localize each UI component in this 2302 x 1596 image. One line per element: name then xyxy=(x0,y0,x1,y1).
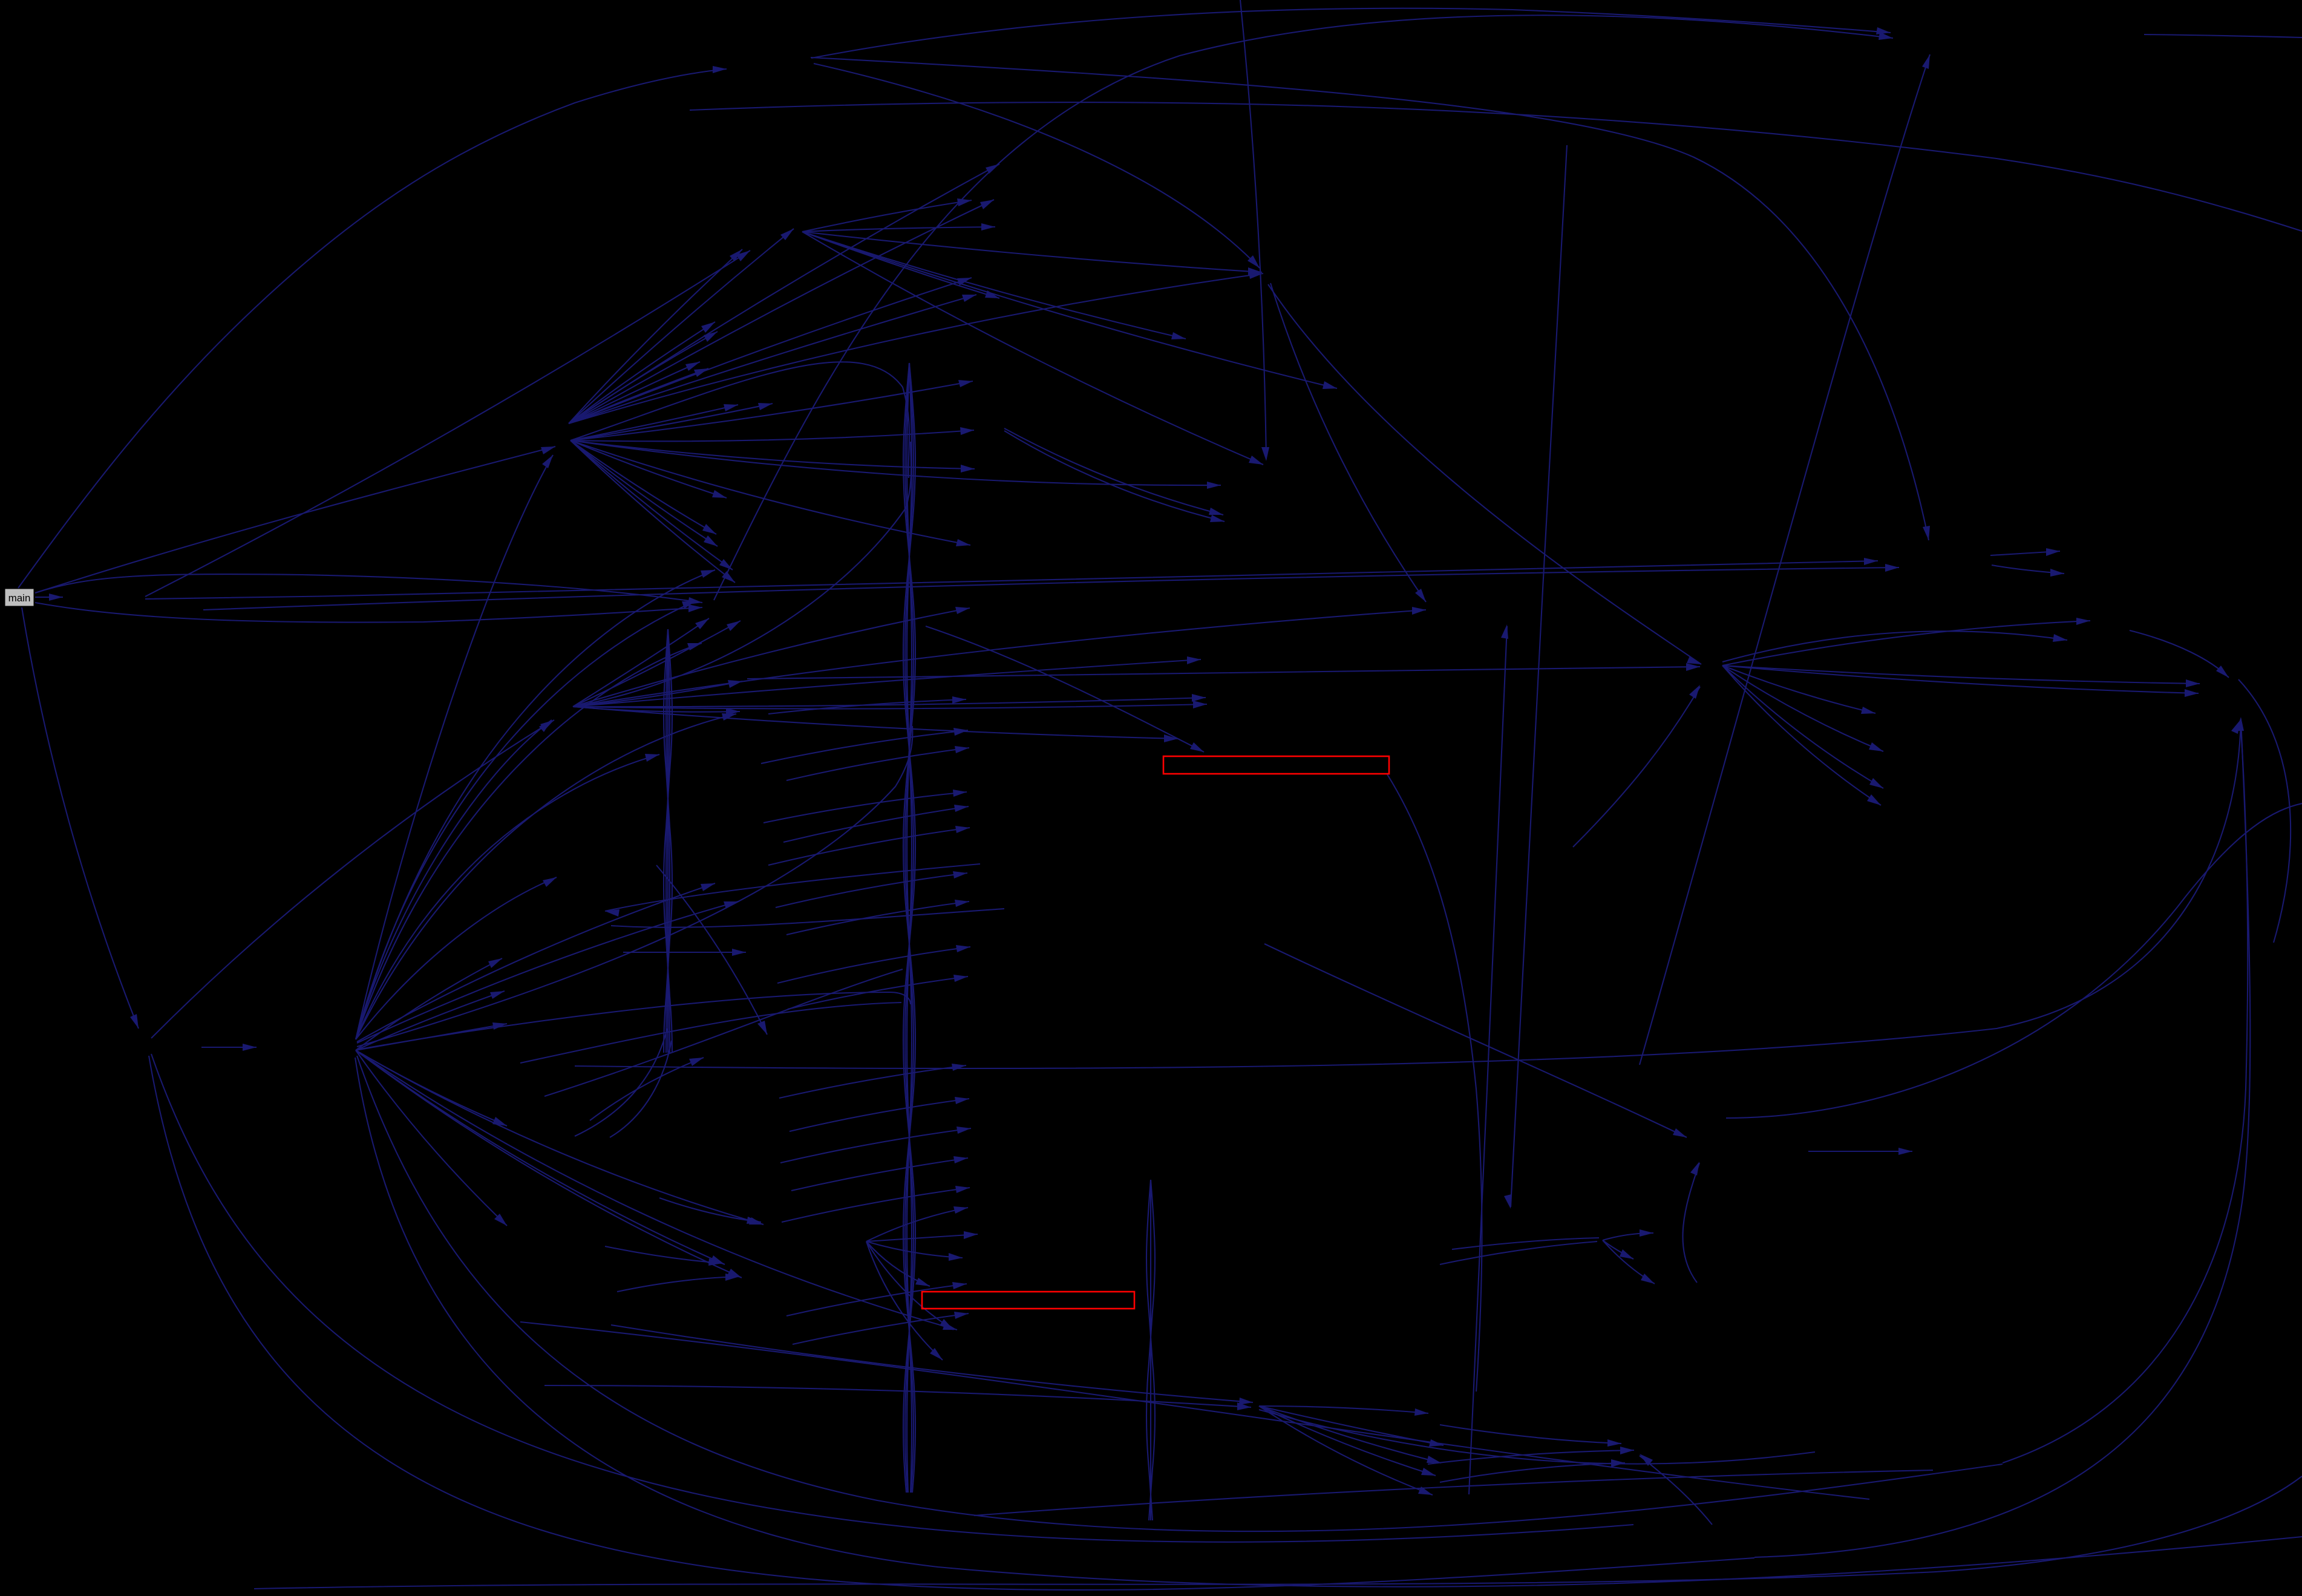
arrowhead edge c20 fan xyxy=(930,1348,943,1360)
edge mid arrow y1574 xyxy=(623,952,746,953)
arrowhead edge n2 fan xyxy=(695,618,709,629)
edge main to n1 xyxy=(35,446,555,593)
arrowhead edge n1 up fan xyxy=(962,295,976,302)
svg-text:main: main xyxy=(8,592,31,604)
arrowhead edge n2 fan xyxy=(1187,656,1201,664)
edge g fan xyxy=(1259,1406,1433,1495)
arrowhead edge b up fan 6 xyxy=(687,643,702,650)
arrowhead edge b down fan xyxy=(492,1022,507,1030)
spine2 braid strand 5 xyxy=(667,629,669,1053)
arrowhead edge g fan xyxy=(1427,1456,1441,1463)
arrowhead edge n2 fan xyxy=(727,621,741,631)
edge c20 fan xyxy=(866,1241,943,1360)
red node box 2 xyxy=(922,1292,1134,1309)
arrowhead edge main to node t1 xyxy=(713,66,727,73)
edge colC to colD xyxy=(782,1188,970,1222)
edge c5b long to T xyxy=(203,567,1899,610)
edge main to a xyxy=(22,607,139,1029)
arrowhead edge colC to colD xyxy=(956,945,970,952)
spine braid strand 2 xyxy=(903,363,915,1493)
arrowhead edge colC to colD xyxy=(953,1156,968,1163)
arrowhead edge colC to colD xyxy=(955,1186,970,1193)
edge into i b xyxy=(1428,1450,1634,1464)
arrowhead edge c5b long to T xyxy=(1885,564,1899,572)
edge n2 fan xyxy=(573,704,1207,708)
spine3 braid strand 3 xyxy=(1150,1180,1151,1520)
arrowhead edge h4 fan xyxy=(2186,679,2200,687)
edge colC to colD xyxy=(764,792,967,823)
arrowhead edge c1h fan xyxy=(981,223,995,231)
arrowhead edge into redbox1 xyxy=(1190,742,1204,752)
edge b to n2 xyxy=(356,720,552,1039)
edge c17 to h4 xyxy=(747,667,1700,679)
spine2 peel 1 xyxy=(575,1029,667,1136)
edge b down fan xyxy=(356,958,502,1050)
arrowhead edge n1 down fan xyxy=(702,524,716,534)
arrowhead edge n2 fan xyxy=(728,680,742,688)
edge into c20 a xyxy=(659,1198,761,1222)
edge into h4 low xyxy=(1573,687,1700,847)
edge p to q xyxy=(1808,1151,1912,1152)
edge g fan xyxy=(1259,1406,1444,1445)
edge diag into p xyxy=(1264,944,1687,1137)
edge main to c5 upper lens xyxy=(35,574,702,603)
edge T out a xyxy=(1990,551,2060,555)
long band wire 2 xyxy=(974,1470,1933,1516)
edge b to node m2 xyxy=(357,901,738,1043)
edge colC to colD xyxy=(788,976,968,1009)
spine3 braid strand 1 xyxy=(1146,1180,1155,1520)
arrowhead edge b down fan xyxy=(727,1269,742,1278)
arrowhead edge n1 up fan xyxy=(1249,272,1263,279)
arrowhead edge main to c5 lower lens xyxy=(688,604,702,612)
edge up to g4 xyxy=(1682,1163,1699,1283)
edge g fan xyxy=(1259,1406,1436,1476)
arrowhead edge n1 down fan xyxy=(961,465,975,473)
spine2 braid strand 1 xyxy=(664,629,672,1053)
edge colC to colD xyxy=(786,1284,967,1316)
arrowhead edge f fan xyxy=(1620,1249,1633,1259)
arrowhead edge g fan xyxy=(1418,1486,1433,1495)
edge n1 up fan xyxy=(569,322,715,424)
arrowhead edge n1 up fan xyxy=(701,322,715,333)
arrowhead edge n1 up fan xyxy=(704,332,718,342)
edge n2 fan xyxy=(573,659,1201,707)
arrowhead edge h4 fan xyxy=(1867,794,1881,805)
edge b up fan 7 xyxy=(356,714,736,1039)
arrowhead edge c1h fan xyxy=(1171,332,1186,339)
edge redbox1 out xyxy=(1387,774,1482,1392)
edge n1 down fan xyxy=(571,430,974,441)
edge b up fan 5 xyxy=(356,570,715,1039)
S merge 1 xyxy=(544,969,903,1096)
edge f fan xyxy=(1603,1240,1633,1259)
arrowhead edge c20 fan xyxy=(953,1206,968,1214)
edge top to e10 xyxy=(1240,0,1266,459)
arrowhead edge n2 fan xyxy=(1192,694,1206,702)
spine braid strand 1 xyxy=(903,363,915,1493)
edge main to node t1 xyxy=(18,69,727,588)
edge b down fan xyxy=(356,1050,507,1126)
edge b down fan xyxy=(356,1050,957,1330)
edge d7 to e5 xyxy=(1004,431,1225,522)
arrowhead edge n1 up fan xyxy=(685,362,700,371)
edge c20 fan xyxy=(866,1241,963,1258)
arrowhead edge into i c xyxy=(1611,1459,1625,1467)
arrowhead edge main to n1 xyxy=(541,446,555,454)
arrowhead edge up into node mid3 xyxy=(689,1058,704,1066)
edge n2 fan xyxy=(573,618,709,707)
edge n1 down fan xyxy=(571,440,735,583)
arrowhead edge b up fan 4 xyxy=(682,601,696,609)
edge b down fan xyxy=(356,1050,725,1264)
arrowhead edge colC to colD xyxy=(956,1127,971,1134)
edge up into node mid3 xyxy=(590,1058,704,1120)
edge n1 down fan xyxy=(571,440,733,570)
edge into i c xyxy=(1440,1463,1625,1482)
spine2 braid strand 4 xyxy=(666,629,670,1053)
arrowhead edge t1 arc to T xyxy=(1923,526,1930,540)
arrowhead edge n1 up fan xyxy=(980,200,994,209)
arrowhead edge d7 to e4 xyxy=(1209,508,1223,515)
edge c5 to top-right node xyxy=(714,15,1893,600)
arrowhead edge colC to colD xyxy=(955,826,970,833)
edge n1 up fan xyxy=(569,295,976,424)
arrowhead edge u01 long to T2 xyxy=(1864,558,1878,565)
edge n2 fan xyxy=(573,707,1178,739)
spine braid strand 4 xyxy=(905,363,914,1493)
edge b up fan 8 xyxy=(356,754,659,1039)
arrowhead edge diag into p xyxy=(1673,1128,1687,1137)
edge c20 fan xyxy=(866,1241,930,1286)
arrowhead edge c20 fan xyxy=(915,1278,930,1286)
arrowhead edge a to b xyxy=(243,1044,257,1051)
bottom long wire xyxy=(254,1476,2302,1589)
edge e11 to f1 xyxy=(1270,283,1426,602)
edge colC to colD xyxy=(768,699,966,714)
edge b to node m1 xyxy=(357,883,715,1042)
edge back into v xyxy=(605,864,980,911)
edge into c20 b xyxy=(605,1246,722,1263)
edge t1 to top-right node xyxy=(811,8,1891,58)
spine3 braid strand 2 xyxy=(1146,1180,1155,1520)
arrowhead edge b down fan xyxy=(488,958,502,968)
edge into i a xyxy=(1440,1425,1621,1444)
edge colC to colD xyxy=(777,947,970,983)
arrowhead edge n2 fan xyxy=(1193,701,1207,708)
arrowhead edge n1 up fan xyxy=(957,278,972,286)
arrowhead edge colC to colD xyxy=(954,805,969,812)
edge b up fan 6 xyxy=(356,643,702,1039)
tile8 big curve xyxy=(1726,803,2302,1118)
spine2 peel 2 xyxy=(610,1041,672,1137)
edge h4 lens2 xyxy=(1722,631,2067,662)
arrowhead edge b to n2 xyxy=(539,720,552,732)
arrowhead edge b up fan 8 xyxy=(645,754,659,762)
arrowhead edge c17 to h4 xyxy=(1686,663,1700,671)
arrowhead edge into h4 low xyxy=(1689,685,1700,699)
edge h4 fan xyxy=(1722,666,2200,684)
edge n1 up fan xyxy=(569,273,1263,424)
arrowhead edge s into i xyxy=(1640,1454,1653,1466)
spine feeder 3 xyxy=(357,726,912,1047)
arrowhead edge n2 fan xyxy=(1412,607,1426,615)
arrowhead edge colC to colD xyxy=(955,900,969,907)
arrowhead edge b to node v xyxy=(543,877,557,887)
edge n1 down fan xyxy=(571,440,727,498)
edge n1 up fan xyxy=(569,249,742,424)
edge colC to colD xyxy=(793,1313,969,1344)
arrowhead edge n1 down fan xyxy=(724,404,738,411)
spine braid strand 5 xyxy=(907,363,912,1493)
edge colC to colD xyxy=(786,748,969,780)
arrowhead edge c1h fan xyxy=(957,198,972,206)
arrowhead edge g fan xyxy=(1414,1408,1428,1416)
edge n1 up fan xyxy=(569,278,972,424)
arrowhead edge n1 down fan xyxy=(960,427,974,435)
arrowhead edge sweep up to r2 xyxy=(2231,720,2240,734)
arrowhead edge b to node m2 xyxy=(724,901,738,909)
arrowhead edge colC to colD xyxy=(952,1282,967,1289)
edge d7 to e4 xyxy=(1004,428,1223,515)
edge c1h fan xyxy=(802,232,1186,339)
arrowhead edge colC to colD xyxy=(953,975,968,982)
edge b down fan xyxy=(356,1050,742,1278)
edge colC to colD xyxy=(761,730,968,764)
edge c1h fan xyxy=(802,232,1337,388)
edge a to n2 xyxy=(151,720,554,1038)
arrowhead edge into c20 c xyxy=(725,1274,739,1281)
edge diag up to f7 xyxy=(1469,626,1507,1494)
edge c1h fan xyxy=(802,232,999,298)
edge b bottom sweep 2 xyxy=(355,1058,2302,1587)
arrowhead edge e11 to f1 xyxy=(1415,589,1426,602)
long mid wire to r2 xyxy=(575,719,2241,1068)
arrowhead edge h4 fan xyxy=(1869,742,1883,751)
arrowhead edge b to node m1 xyxy=(701,883,715,891)
edge n1 up fan xyxy=(569,332,718,424)
S merge 2 xyxy=(520,1002,901,1063)
spine braid strand 6 xyxy=(907,363,912,1493)
spine feeder 2 xyxy=(573,442,911,707)
spine2 braid strand 3 xyxy=(666,629,670,1053)
arrowhead edge colC to colD xyxy=(953,728,968,736)
edge into f small2 xyxy=(1440,1241,1597,1264)
edge r1 arc down xyxy=(2238,679,2291,943)
edge main to u01 xyxy=(35,597,63,598)
edge into c20 c xyxy=(617,1277,739,1292)
edge s into i xyxy=(1640,1456,1712,1525)
edge n2 fan xyxy=(573,707,740,712)
arrowhead edge n1 up fan xyxy=(730,249,742,261)
edge colC to colD xyxy=(776,873,967,908)
edge into g2 xyxy=(544,1385,1251,1407)
arrowhead edge main to a xyxy=(130,1014,139,1029)
arrowhead edge n1 down fan xyxy=(704,535,718,546)
arrowhead edge n1 down fan xyxy=(1207,482,1221,489)
arrowhead edge diag down to f8 xyxy=(1504,1194,1511,1209)
arrowhead edge h4 lens2 xyxy=(2053,634,2067,642)
edge c20 fan xyxy=(866,1234,978,1241)
edge n1 up fan xyxy=(569,164,999,424)
edge b to n1 xyxy=(356,455,553,1039)
edge n1 down fan xyxy=(571,440,716,534)
arrowhead edge b down fan xyxy=(490,991,505,999)
edge n2 fan xyxy=(573,698,1206,707)
edge colC to colD xyxy=(779,1065,966,1098)
edge sweep up to r2 xyxy=(2003,720,2248,1463)
arrowhead edge n2 fan xyxy=(1164,734,1178,742)
arrowhead edge d7 to e5 xyxy=(1210,515,1225,522)
arrowhead edge n1 up fan xyxy=(780,229,794,240)
arrowhead edge t1 to top-right node xyxy=(1876,27,1891,34)
edge n1 down fan xyxy=(571,440,970,545)
top right node out wire xyxy=(2144,34,2302,38)
arrowhead edge mid arrow y1574 xyxy=(732,949,746,956)
edge colC to colD xyxy=(790,1099,969,1131)
arrowhead edge h4 fan xyxy=(1869,778,1883,788)
edge n2 fan xyxy=(573,681,742,707)
arrowhead edge n1 down fan xyxy=(719,559,733,570)
edge h4 fan xyxy=(1722,666,1881,805)
arrowhead edge b up fan 7 xyxy=(722,713,736,721)
spine2 braid strand 2 xyxy=(664,629,672,1053)
arrowhead edge colC to colD xyxy=(953,790,967,797)
edge b down fan xyxy=(356,1050,764,1225)
edge b down fan xyxy=(356,1050,507,1226)
edge n1 down fan xyxy=(571,404,773,440)
arrowhead edge n2 fan xyxy=(726,708,740,716)
edge a to b xyxy=(201,1047,257,1048)
arrowhead edge colC to colD xyxy=(955,746,969,753)
edge T out b xyxy=(1992,565,2064,574)
edge colC to colD xyxy=(783,806,969,842)
edge c1h fan xyxy=(802,200,972,232)
arrowhead edge h4 fan xyxy=(2185,689,2199,697)
edge main to c5 lower lens xyxy=(35,603,702,623)
edge n1 down fan xyxy=(571,440,1221,485)
edge c1h fan xyxy=(802,232,1262,272)
spine feeder 1 xyxy=(571,362,909,478)
edge colC to colD xyxy=(780,1128,971,1163)
edge diag up to top xyxy=(1640,54,1930,1065)
edge b down fan xyxy=(356,1024,507,1050)
edge b up fan 4 xyxy=(356,601,696,1039)
edge c20 fan xyxy=(866,1208,968,1241)
arrowhead edge colC to colD xyxy=(953,871,967,878)
edge n1 down fan xyxy=(571,440,718,546)
arrowhead edge n1 down fan xyxy=(956,539,970,546)
arrowhead edge up to g4 xyxy=(1690,1162,1699,1176)
arrowhead edge b down fan xyxy=(492,1117,507,1126)
arrowhead edge colC to colD xyxy=(952,1064,966,1071)
arrowhead edge h4 fan xyxy=(2076,618,2090,625)
edge n1 up fan xyxy=(569,200,994,424)
arrowhead edge n1 up fan xyxy=(986,164,999,174)
edge n1 down fan xyxy=(571,440,975,469)
long top wire 2 xyxy=(690,102,2302,231)
arrowhead edge main to c5 upper lens xyxy=(688,597,702,604)
arrowhead edge back into v xyxy=(605,909,620,917)
edge h4 fan xyxy=(1722,666,1883,751)
long band wire 1 xyxy=(520,1322,1869,1499)
node main xyxy=(5,589,34,606)
arrowhead edge n1 up fan xyxy=(694,368,708,377)
arrowhead edge b down fan xyxy=(710,1255,725,1264)
edge h4 fan xyxy=(1722,621,2090,666)
arrowhead edge b down fan xyxy=(494,1214,507,1226)
arrowhead edge g fan xyxy=(1421,1468,1436,1476)
arrowhead edge c20 fan xyxy=(940,1319,953,1330)
edge into f small xyxy=(1452,1238,1599,1249)
arrowhead edge diag up to f7 xyxy=(1501,624,1508,639)
edge f fan xyxy=(1603,1233,1653,1240)
arrowhead edge colC to colD xyxy=(955,1097,969,1104)
arrowhead edge c20 fan xyxy=(964,1231,978,1239)
edge b to node v xyxy=(356,877,557,1039)
spine braid strand 3 xyxy=(905,363,914,1493)
arrowhead edge c1h fan xyxy=(1323,381,1337,389)
arrowhead edge diag up to top xyxy=(1922,54,1930,69)
edge a bottom sweep 2 xyxy=(151,1054,1633,1542)
red node box 1 xyxy=(1163,756,1389,774)
edge colC to colD xyxy=(786,901,969,935)
arrowhead edge p to q xyxy=(1898,1148,1912,1155)
edge n1 down fan xyxy=(571,381,973,440)
arrowhead edge T out b xyxy=(2050,569,2064,577)
edge sweep up to r2 b xyxy=(1754,720,2250,1557)
arrowhead edge a to n2 xyxy=(540,720,554,730)
arrowhead edge b down fan xyxy=(943,1323,957,1330)
edge back into v 2 xyxy=(611,909,1004,927)
arrowhead edge colC to colD xyxy=(954,1312,969,1319)
arrowhead edge into g xyxy=(1239,1398,1253,1405)
arrowhead edge h4 fan xyxy=(1861,707,1875,714)
edge u01 to c1h xyxy=(145,250,750,597)
arrowhead edge into c20 b xyxy=(708,1258,722,1266)
arrowhead edge main to u01 xyxy=(49,594,63,601)
edge f fan xyxy=(1603,1240,1655,1284)
edge into g xyxy=(611,1325,1253,1402)
edge n1 up fan xyxy=(569,368,708,424)
edge u01 long to T2 xyxy=(145,561,1878,599)
spine feeder 4 xyxy=(357,992,911,1050)
edge g sweep right xyxy=(1259,1410,1815,1464)
edge c1h fan xyxy=(802,232,1263,465)
arrowhead edge n2 fan xyxy=(955,607,970,614)
edge b down fan xyxy=(356,991,505,1050)
arrowhead edge c1h fan xyxy=(1248,267,1262,275)
arrowhead edge into c20 a xyxy=(747,1217,761,1224)
arrowhead edge g fan xyxy=(1429,1439,1444,1447)
edge h4 fan xyxy=(1722,666,1883,788)
edge diag down to f8 xyxy=(1511,145,1567,1207)
edge g fan xyxy=(1259,1406,1428,1413)
edge e11 to h4 xyxy=(1268,284,1701,664)
arrowhead edge into g2 xyxy=(1237,1402,1251,1410)
arrowhead edge n1 down fan xyxy=(758,403,773,410)
arrowhead edge n1 down fan xyxy=(722,571,735,583)
arrowhead edge f fan xyxy=(1640,1229,1653,1237)
edge g fan xyxy=(1259,1406,1441,1463)
edge to r1 xyxy=(2130,630,2229,678)
arrowhead long mid wire to r2 xyxy=(2236,717,2244,731)
arrowhead edge n1 down fan xyxy=(712,490,727,498)
arrowhead edge into i a xyxy=(1607,1439,1621,1447)
edge n2 fan xyxy=(573,621,741,707)
arrowhead edge n1 down fan xyxy=(958,380,973,387)
arrowhead edge u01 to c1h xyxy=(736,250,750,261)
